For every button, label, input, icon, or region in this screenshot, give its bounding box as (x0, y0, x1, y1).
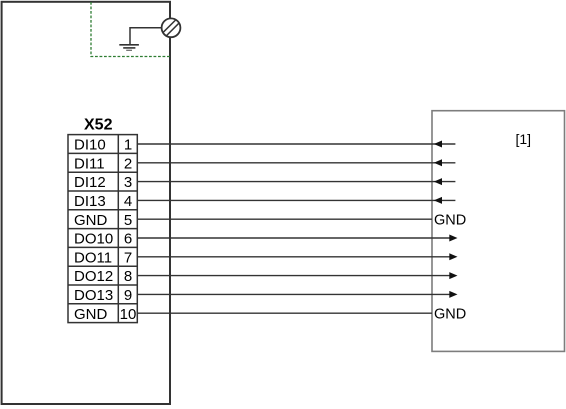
X52 pin 7 (DO11) (74, 249, 132, 266)
svg-text:X52: X52 (84, 116, 113, 133)
svg-text:GND: GND (74, 212, 108, 229)
wire DO12 (pin 8) (137, 272, 457, 279)
svg-text:DO10: DO10 (74, 231, 113, 248)
svg-text:9: 9 (124, 287, 132, 304)
svg-text:2: 2 (124, 155, 132, 172)
svg-text:DI10: DI10 (74, 137, 106, 154)
arrow into device (DI11) (434, 159, 442, 166)
svg-text:10: 10 (120, 306, 137, 323)
wire DI11 (pin 2) (137, 159, 455, 166)
svg-text:GND: GND (434, 212, 466, 228)
svg-text:DO11: DO11 (74, 249, 112, 266)
shield boundary (green dashed) (91, 2, 170, 57)
arrow into device [1] (DO13) (449, 291, 457, 298)
svg-text:DI13: DI13 (74, 193, 106, 210)
arrow into device [1] (DO12) (449, 272, 457, 279)
svg-text:7: 7 (124, 249, 132, 266)
wire DO10 (pin 6) (137, 235, 457, 242)
svg-text:5: 5 (124, 212, 132, 229)
ground (functional earth) (119, 45, 139, 51)
X52 pin 10 (GND) (74, 306, 136, 323)
chassis screw terminal (162, 18, 181, 37)
X52 pin 8 (DO12) (74, 268, 132, 285)
svg-text:GND: GND (74, 306, 108, 323)
connector X52 body (68, 135, 137, 323)
svg-text:4: 4 (124, 193, 132, 210)
svg-text:GND: GND (434, 306, 466, 322)
svg-text:DI12: DI12 (74, 174, 106, 191)
X52 pin 9 (DO13) (74, 287, 132, 304)
svg-text:DI11: DI11 (74, 155, 105, 172)
arrow into device (DI13) (434, 197, 442, 204)
X52 pin 3 (DI12) (74, 174, 132, 191)
X52 pin 4 (DI13) (74, 193, 132, 210)
X52 pin 6 (DO10) (74, 231, 132, 248)
arrow into device (DI10) (434, 141, 442, 148)
X52 pin 1 (DI10) (74, 137, 132, 154)
device [1] outline (right unit) (432, 111, 565, 352)
svg-text:8: 8 (124, 268, 132, 285)
svg-text:[1]: [1] (516, 131, 532, 147)
X52 pin 5 (GND) (74, 212, 132, 229)
svg-text:6: 6 (124, 231, 132, 248)
svg-text:3: 3 (124, 174, 132, 191)
wire DO13 (pin 9) (137, 291, 457, 298)
arrow into device [1] (DO10) (449, 235, 457, 242)
wire DI10 (pin 1) (137, 141, 455, 148)
wire GND (pin 10) (137, 312, 432, 314)
wire screw-to-earth (130, 28, 162, 44)
device outline (left unit) (2, 2, 170, 404)
wire DI13 (pin 4) (137, 197, 455, 204)
wire GND (pin 5) (137, 218, 432, 220)
svg-text:1: 1 (124, 137, 132, 154)
wire DI12 (pin 3) (137, 178, 455, 185)
arrow into device [1] (DO11) (449, 253, 457, 260)
X52 pin 2 (DI11) (74, 155, 132, 172)
svg-text:DO12: DO12 (74, 268, 113, 285)
wire DO11 (pin 7) (137, 253, 457, 260)
arrow into device (DI12) (434, 178, 442, 185)
svg-text:DO13: DO13 (74, 287, 113, 304)
